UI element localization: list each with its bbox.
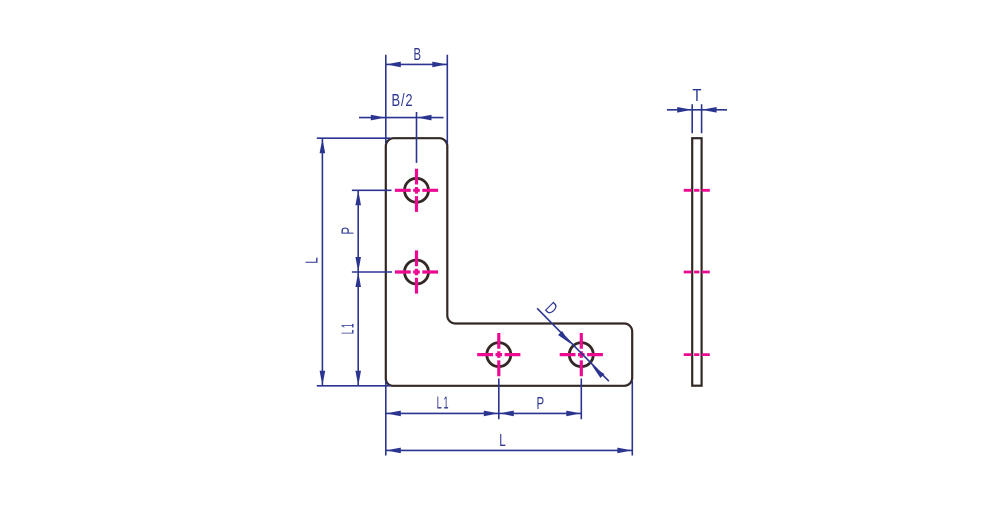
svg-text:L: L — [499, 432, 505, 451]
svg-text:B/2: B/2 — [392, 91, 414, 110]
svg-text:P: P — [339, 227, 358, 235]
svg-text:T: T — [692, 86, 701, 105]
svg-text:L1: L1 — [437, 392, 451, 412]
svg-text:P: P — [536, 395, 544, 414]
svg-text:B: B — [414, 46, 422, 65]
svg-text:L1: L1 — [338, 322, 357, 334]
svg-text:L: L — [303, 257, 322, 263]
